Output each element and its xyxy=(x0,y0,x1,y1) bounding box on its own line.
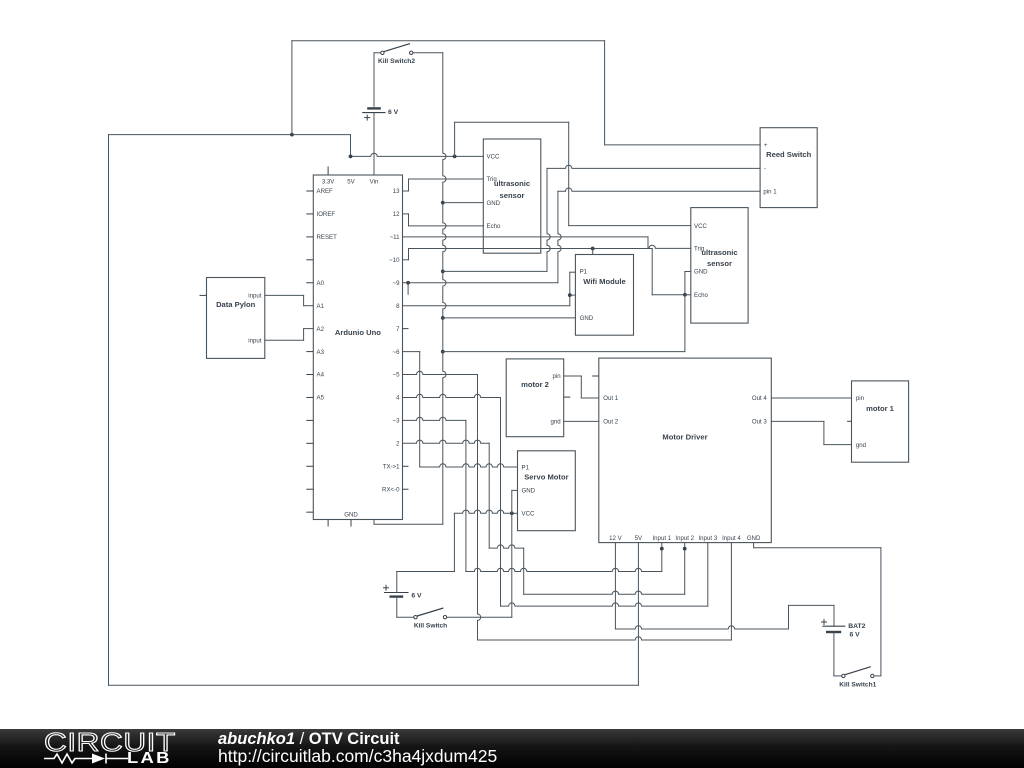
svg-text:sensor: sensor xyxy=(500,191,525,200)
battery B2 6V xyxy=(383,585,422,600)
logo resistor-diode squiggle xyxy=(44,754,128,764)
wire 5V rail xyxy=(351,153,484,156)
node wifi midpin junction xyxy=(568,293,572,297)
svg-text:12: 12 xyxy=(393,211,400,218)
wire battery B2 up xyxy=(396,572,398,593)
svg-text:VCC: VCC xyxy=(487,154,500,161)
node servo junction xyxy=(510,511,514,515)
svg-text:A0: A0 xyxy=(317,280,325,287)
svg-text:-: - xyxy=(764,166,766,173)
wire battery B2 down xyxy=(397,597,414,618)
wire motor2 gnd to MD Out2 xyxy=(564,420,599,422)
svg-text:6 V: 6 V xyxy=(388,109,399,116)
svg-text:motor 2: motor 2 xyxy=(521,380,549,389)
svg-text:sensor: sensor xyxy=(707,259,732,268)
svg-text:GND: GND xyxy=(694,269,708,276)
svg-text:Out 1: Out 1 xyxy=(603,395,619,402)
wire MD GND to Kill Switch1 xyxy=(754,543,881,676)
node wifi-top junction xyxy=(591,247,595,251)
wire MD Out3 to motor1 gnd xyxy=(771,421,851,444)
wire battery B2 plus to servo xyxy=(397,510,518,571)
svg-text:IOREF: IOREF xyxy=(317,211,336,218)
svg-text:A5: A5 xyxy=(317,395,325,402)
svg-text:5V: 5V xyxy=(347,179,355,186)
wire pin13 to US1 Trig xyxy=(403,179,484,191)
svg-text:BAT2: BAT2 xyxy=(848,623,865,630)
wire pin8 to wifi pins xyxy=(403,272,576,306)
node pin9 junction xyxy=(406,281,410,285)
motor M1 motor 1 xyxy=(847,381,909,462)
node 5V-pin junction xyxy=(349,155,353,159)
svg-text:Servo Motor: Servo Motor xyxy=(524,473,568,482)
svg-text:~6: ~6 xyxy=(393,349,401,356)
wire MD 12V to BAT2 plus xyxy=(615,543,834,629)
svg-text:A3: A3 xyxy=(317,349,325,356)
wire motor2 pin to MD Out1 xyxy=(564,376,599,398)
svg-text:GND: GND xyxy=(747,535,761,542)
sensor US1 ultrasonic xyxy=(483,139,541,253)
svg-text:ultrasonic: ultrasonic xyxy=(701,248,737,257)
IC U1 Ardunio Uno xyxy=(306,167,408,527)
svg-text:~5: ~5 xyxy=(393,372,401,379)
wire pin11 to US2 Trig xyxy=(403,237,691,249)
svg-text:4: 4 xyxy=(396,395,400,402)
module Wifi Module xyxy=(575,255,633,336)
battery B1 6V xyxy=(362,108,398,120)
svg-text:~9: ~9 xyxy=(393,280,401,287)
wire trunk to US1 GND xyxy=(443,202,484,204)
wire dangling stub below pin9 xyxy=(407,283,409,295)
svg-text:RESET: RESET xyxy=(317,234,338,241)
svg-text:A1: A1 xyxy=(317,303,325,310)
svg-text:pin 1: pin 1 xyxy=(763,188,777,195)
node US2 echo junction xyxy=(683,293,687,297)
wire US2 echo down to trunk row xyxy=(443,295,685,352)
wire wifi top pin stub xyxy=(592,249,594,255)
wire rail branch to US2 VCC xyxy=(455,122,691,225)
wire trunk to Reed minus xyxy=(443,165,760,271)
svg-text:Input 3: Input 3 xyxy=(698,535,717,542)
battery BAT2 6V xyxy=(821,619,866,639)
svg-text:Ardunio Uno: Ardunio Uno xyxy=(335,328,381,337)
svg-text:GND: GND xyxy=(487,200,501,207)
svg-text:Kill Switch2: Kill Switch2 xyxy=(378,58,415,65)
svg-text:P1: P1 xyxy=(580,269,588,276)
svg-text:Echo: Echo xyxy=(487,223,502,230)
wire pin10 to wifi P1 and US2 Echo xyxy=(403,249,691,295)
svg-text:~3: ~3 xyxy=(393,418,401,425)
wire pin9 to Reed pin1 xyxy=(403,188,761,283)
wire pin3 to MD Input1 xyxy=(403,417,662,571)
svg-text:VCC: VCC xyxy=(694,223,707,230)
motor M3 Servo Motor xyxy=(518,451,576,531)
svg-text:GND: GND xyxy=(522,488,536,495)
wire battery B1 to Vin xyxy=(373,113,375,175)
svg-text:gnd: gnd xyxy=(551,419,561,426)
node MD input1 junction xyxy=(660,547,664,551)
svg-text:pin: pin xyxy=(553,373,561,380)
node trunk-US1GND junction xyxy=(441,201,445,205)
wire 5V top row to rail corner xyxy=(109,135,351,157)
svg-text:~10: ~10 xyxy=(389,257,400,264)
switch Kill Switch1 xyxy=(839,667,881,689)
svg-text:pin: pin xyxy=(856,395,864,402)
svg-text:Data Pylon: Data Pylon xyxy=(216,300,256,309)
wire pin4 to MD Input3 xyxy=(403,394,708,606)
wire 5V-net left loop xyxy=(109,135,639,686)
wire battery B1 to switch xyxy=(373,53,375,107)
svg-text:P1: P1 xyxy=(522,464,530,471)
svg-text:6 V: 6 V xyxy=(411,593,422,600)
svg-text:input: input xyxy=(248,337,262,344)
svg-text:input: input xyxy=(248,293,262,300)
svg-text:Input 1: Input 1 xyxy=(652,535,671,542)
node trunk-reedminus junction xyxy=(441,270,445,274)
wire GND trunk xyxy=(374,53,446,525)
sensor US2 ultrasonic xyxy=(691,208,748,324)
wire MD Out4 to motor1 pin xyxy=(771,397,851,399)
svg-text:5V: 5V xyxy=(635,535,643,542)
svg-text:VCC: VCC xyxy=(522,511,535,518)
wire Data Pylon input2 to A2 xyxy=(265,329,314,341)
svg-text:Kill Switch1: Kill Switch1 xyxy=(839,681,876,688)
svg-text:+: + xyxy=(764,142,768,149)
svg-text:TX->1: TX->1 xyxy=(383,463,400,470)
svg-text:Input 2: Input 2 xyxy=(675,535,694,542)
wire Data Pylon input1 to A1 xyxy=(265,295,314,305)
svg-text:8: 8 xyxy=(396,303,400,310)
svg-text:Out 4: Out 4 xyxy=(752,395,768,402)
svg-text:~11: ~11 xyxy=(390,234,400,241)
svg-text:6 V: 6 V xyxy=(850,632,861,639)
svg-text:2: 2 xyxy=(396,441,400,448)
svg-text:RX<-0: RX<-0 xyxy=(382,486,400,493)
svg-text:Kill Switch: Kill Switch xyxy=(414,623,447,630)
wire BAT2 down xyxy=(834,632,842,676)
wire pin2 to MD Input2 xyxy=(403,440,685,594)
svg-text:Reed Switch: Reed Switch xyxy=(766,150,812,159)
svg-text:ultrasonic: ultrasonic xyxy=(494,179,530,188)
motor M2 motor 2 xyxy=(506,359,570,437)
svg-text:Wifi Module: Wifi Module xyxy=(583,277,626,286)
svg-text:Vin: Vin xyxy=(370,179,379,186)
svg-text:13: 13 xyxy=(393,188,400,195)
node MD input2 junction xyxy=(683,547,687,551)
svg-text:AREF: AREF xyxy=(317,188,334,195)
svg-text:GND: GND xyxy=(580,315,594,322)
node rail branch junction xyxy=(453,155,457,159)
wire pin6 to servo P1 xyxy=(403,352,518,467)
svg-text:Motor Driver: Motor Driver xyxy=(662,432,707,441)
switch Kill Switch2 xyxy=(374,44,443,66)
IC U2 Motor Driver xyxy=(592,358,771,542)
svg-text:3.3V: 3.3V xyxy=(322,179,335,186)
svg-text:Input 4: Input 4 xyxy=(722,535,741,542)
wire trunk to wifi GND xyxy=(443,317,576,319)
svg-text:gnd: gnd xyxy=(856,442,866,449)
svg-text:12 V: 12 V xyxy=(609,535,622,542)
node trunk-wifiGND junction xyxy=(441,316,445,320)
svg-text:7: 7 xyxy=(396,326,400,333)
svg-text:motor 1: motor 1 xyxy=(866,404,895,413)
wire US2 GND hook xyxy=(685,272,691,295)
svg-text:Echo: Echo xyxy=(694,292,709,299)
switch Kill Switch xyxy=(414,608,512,630)
wire kill switch up to servo net xyxy=(511,513,513,617)
wire A reed-plus feed xyxy=(292,41,760,145)
wire pin12 to US1 Echo xyxy=(403,214,484,226)
svg-text:Out 2: Out 2 xyxy=(603,419,619,426)
wire pin5 to MD Input4 xyxy=(403,371,732,640)
switch Reed Switch xyxy=(760,128,817,208)
svg-text:Out 3: Out 3 xyxy=(752,419,768,426)
node trunk-row352 junction xyxy=(441,350,445,354)
module Data Pylon xyxy=(200,278,265,359)
node junction at 291.9,134.6 xyxy=(290,133,294,137)
svg-text:A2: A2 xyxy=(317,326,325,333)
wire servo GND link xyxy=(512,490,518,513)
svg-text:A4: A4 xyxy=(317,372,325,379)
svg-text:GND: GND xyxy=(344,512,358,519)
